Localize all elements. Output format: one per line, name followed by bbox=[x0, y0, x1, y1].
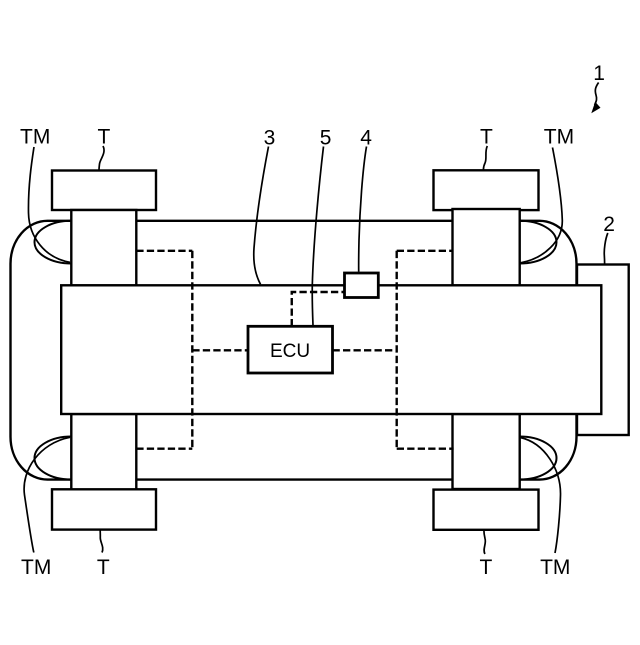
wheel T rear-right bbox=[434, 490, 539, 530]
leader line T rear-right bbox=[484, 530, 486, 554]
leader line TM front-right bbox=[521, 148, 563, 263]
svg-text:2: 2 bbox=[603, 213, 615, 236]
svg-text:ECU: ECU bbox=[270, 341, 310, 362]
wheel T front-right bbox=[434, 170, 539, 210]
chassis / drive unit 3 bbox=[61, 285, 601, 414]
dashed line ECU right bbox=[333, 349, 397, 351]
wheel T rear-left bbox=[52, 489, 156, 529]
svg-text:T: T bbox=[480, 126, 493, 149]
dashed line ECU to sensor 4 bbox=[292, 292, 345, 326]
wheel-well bulge rear-left bbox=[35, 437, 72, 480]
wheel-well bulge rear-right bbox=[520, 437, 557, 480]
axle rear-right bbox=[453, 414, 520, 489]
leader line T front-right bbox=[483, 146, 487, 170]
wheel-well bulge front-left bbox=[35, 221, 72, 264]
dashed line to rear-left axle bbox=[136, 448, 192, 450]
arrow for reference 1 bbox=[595, 83, 599, 106]
dashed line to front-left axle bbox=[136, 250, 192, 252]
leader line 5 bbox=[312, 147, 323, 326]
ECU box bbox=[248, 326, 333, 373]
svg-text:TM: TM bbox=[21, 556, 51, 579]
leader line TM rear-left bbox=[24, 437, 70, 552]
dashed line to rear-right axle bbox=[397, 448, 454, 450]
svg-text:TM: TM bbox=[544, 126, 574, 149]
leader line T rear-left bbox=[100, 530, 103, 552]
svg-text:T: T bbox=[98, 126, 111, 149]
svg-text:TM: TM bbox=[20, 126, 50, 149]
dashed signal line left vertical bbox=[191, 251, 193, 449]
vehicle body outline bbox=[11, 221, 577, 480]
svg-text:T: T bbox=[480, 556, 493, 579]
axle front-right bbox=[453, 209, 520, 286]
svg-text:4: 4 bbox=[360, 127, 372, 150]
svg-text:5: 5 bbox=[320, 127, 332, 150]
svg-text:T: T bbox=[97, 556, 110, 579]
svg-text:1: 1 bbox=[593, 62, 605, 85]
leader line TM rear-right bbox=[520, 438, 560, 554]
battery unit 2 bbox=[577, 265, 629, 436]
leader line 2 bbox=[604, 233, 608, 264]
dashed line ECU left bbox=[192, 349, 248, 351]
leader line TM front-left bbox=[28, 147, 70, 262]
leader line 4 bbox=[359, 147, 367, 272]
svg-text:3: 3 bbox=[264, 127, 276, 150]
dashed line to front-right axle bbox=[397, 250, 453, 252]
wheel-well bulge front-right bbox=[520, 221, 557, 264]
wheel T front-left bbox=[52, 171, 156, 211]
leader line 3 bbox=[254, 147, 269, 285]
axle front-left bbox=[71, 210, 136, 286]
leader line T front-left bbox=[99, 146, 104, 171]
axle rear-left bbox=[71, 414, 136, 489]
dashed signal line right vertical bbox=[396, 251, 398, 449]
sensor 4 box bbox=[345, 273, 379, 298]
svg-text:TM: TM bbox=[540, 556, 570, 579]
